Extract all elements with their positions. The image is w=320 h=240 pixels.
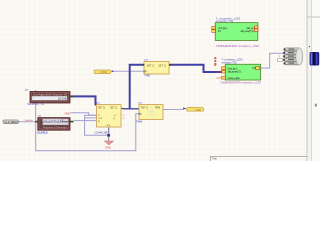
svg-text:7486: 7486 [144,74,150,78]
svg-text:data_recep[7..0]: data_recep[7..0] [241,30,254,33]
svg-text:CD4013B: CD4013B [95,131,108,135]
svg-text:SET Q: SET Q [158,65,166,68]
svg-text:U?: U? [38,114,42,118]
svg-text:U?: U? [139,101,143,105]
svg-text:RXD: RXD [101,70,108,74]
svg-text:Q: Q [113,118,115,120]
svg-text:emission 736: emission 736 [222,61,237,65]
svg-text:U?: U? [145,58,149,62]
svg-text:SET Q: SET Q [141,108,148,110]
svg-text:SERIAL_IO: SERIAL_IO [27,102,45,106]
svg-text:Title: Title [212,157,217,161]
svg-text:Q: Q [114,115,116,117]
svg-text:115.2 kB: 115.2 kB [58,98,67,101]
svg-text:CLK: CLK [98,118,103,120]
svg-text:5x4b2m: 5x4b2m [25,120,33,122]
svg-text:0.0 2.4-4.0 B: 0.0 2.4-4.0 B [43,120,62,123]
svg-text:736BA4E8F9F9 emission_c253: 736BA4E8F9F9 emission_c253 [220,80,261,84]
svg-text:SET Q: SET Q [110,108,117,110]
svg-text:VDD: VDD [65,112,71,116]
svg-text:CLK 4MHZ: CLK 4MHZ [4,120,18,124]
svg-text:TXD: TXD [195,108,202,112]
svg-text:CLK_BASE_B: CLK_BASE_B [37,131,48,135]
svg-text:736: 736 [252,67,257,70]
svg-text:Configurable Digital IO: Configurable Digital IO [33,92,67,96]
svg-text:PWM: PWM [136,119,142,123]
svg-text:CLR: CLR [106,125,111,127]
svg-text:U?: U? [25,88,29,92]
svg-text:data_access[7..0]: data_access[7..0] [228,71,241,74]
svg-text:SET Q: SET Q [147,65,155,68]
svg-text:ladde: ladde [217,78,223,80]
svg-text:ladde: ladde [217,71,223,73]
svg-text:Frequency Generator: Frequency Generator [43,126,67,129]
svg-text:reception 736: reception 736 [216,19,234,23]
svg-text:GND: GND [105,145,111,149]
svg-text:PRM: PRM [155,108,160,110]
svg-text:SET Q: SET Q [98,108,105,110]
svg-text:RX: RX [218,30,222,33]
svg-text:736BA4E8F9F9 reception_c253: 736BA4E8F9F9 reception_c253 [216,44,259,48]
